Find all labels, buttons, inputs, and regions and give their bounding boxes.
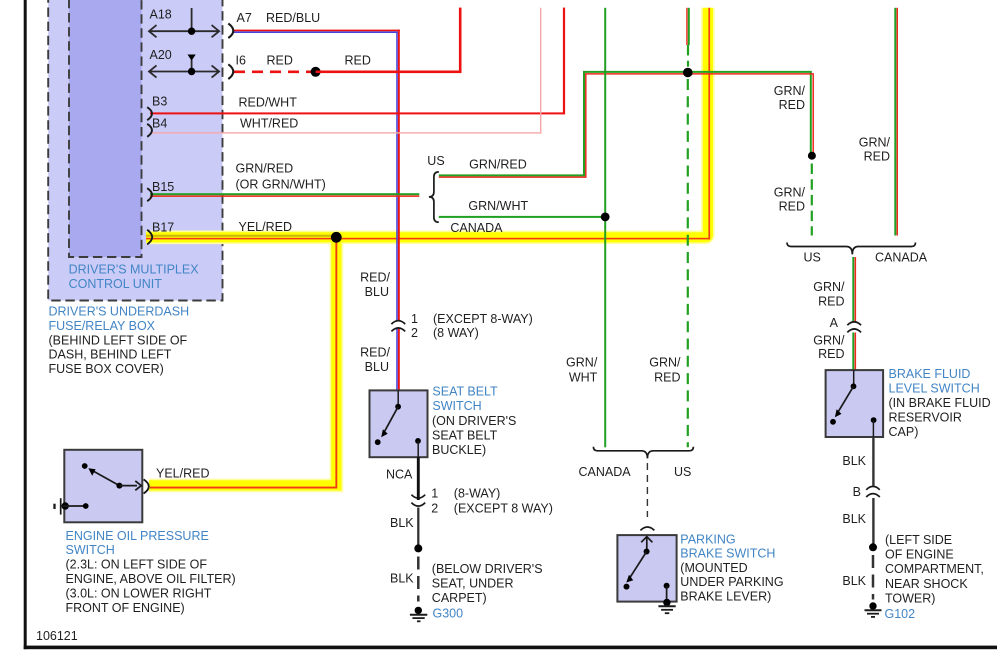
svg-text:BLK: BLK xyxy=(842,512,866,526)
svg-text:RED: RED xyxy=(345,53,371,67)
svg-text:RED: RED xyxy=(779,199,805,213)
svg-text:B: B xyxy=(853,485,861,499)
svg-text:GRN/: GRN/ xyxy=(813,334,845,348)
svg-text:CANADA: CANADA xyxy=(579,465,632,479)
svg-text:RED: RED xyxy=(654,370,680,384)
svg-text:BLK: BLK xyxy=(842,574,866,588)
svg-text:DRIVER'S MULTIPLEX: DRIVER'S MULTIPLEX xyxy=(69,263,200,277)
svg-text:OF ENGINE: OF ENGINE xyxy=(885,548,954,562)
svg-text:BRAKE LEVER): BRAKE LEVER) xyxy=(680,589,771,603)
svg-text:YEL/RED: YEL/RED xyxy=(156,467,210,481)
svg-text:GRN/WHT: GRN/WHT xyxy=(468,199,528,213)
svg-text:TOWER): TOWER) xyxy=(885,591,935,605)
svg-text:NCA: NCA xyxy=(386,468,413,482)
svg-text:A7: A7 xyxy=(237,11,252,25)
svg-text:BRAKE FLUID: BRAKE FLUID xyxy=(889,367,971,381)
svg-text:GRN/: GRN/ xyxy=(813,280,845,294)
svg-text:A20: A20 xyxy=(150,48,172,62)
svg-text:BLK: BLK xyxy=(390,516,414,530)
svg-text:BUCKLE): BUCKLE) xyxy=(432,443,486,457)
svg-text:(BELOW DRIVER'S: (BELOW DRIVER'S xyxy=(432,562,543,576)
svg-text:I6: I6 xyxy=(236,53,246,67)
svg-text:(8-WAY): (8-WAY) xyxy=(454,487,501,501)
svg-text:SWITCH: SWITCH xyxy=(66,543,115,557)
svg-text:(3.0L: ON LOWER RIGHT: (3.0L: ON LOWER RIGHT xyxy=(66,586,212,600)
svg-text:CANADA: CANADA xyxy=(450,221,503,235)
svg-text:CONTROL UNIT: CONTROL UNIT xyxy=(69,277,163,291)
svg-text:FUSE/RELAY BOX: FUSE/RELAY BOX xyxy=(49,319,156,333)
svg-text:NEAR SHOCK: NEAR SHOCK xyxy=(885,577,968,591)
svg-text:YEL/RED: YEL/RED xyxy=(239,220,293,234)
svg-text:RED/WHT: RED/WHT xyxy=(239,95,298,109)
svg-text:(OR GRN/WHT): (OR GRN/WHT) xyxy=(236,178,326,192)
svg-text:(ON DRIVER'S: (ON DRIVER'S xyxy=(432,414,516,428)
svg-text:B3: B3 xyxy=(152,94,167,108)
svg-text:B17: B17 xyxy=(152,221,174,235)
svg-text:(MOUNTED: (MOUNTED xyxy=(680,561,747,575)
svg-text:(BEHIND LEFT SIDE OF: (BEHIND LEFT SIDE OF xyxy=(49,333,188,347)
svg-text:FUSE BOX COVER): FUSE BOX COVER) xyxy=(49,362,164,376)
svg-text:CANADA: CANADA xyxy=(875,251,928,265)
svg-text:B4: B4 xyxy=(152,116,167,130)
svg-text:A: A xyxy=(830,316,839,330)
svg-text:RESERVOIR: RESERVOIR xyxy=(889,411,962,425)
svg-text:SEAT, UNDER: SEAT, UNDER xyxy=(432,576,514,590)
svg-text:SWITCH: SWITCH xyxy=(432,399,481,413)
svg-text:GRN/: GRN/ xyxy=(566,355,598,369)
svg-text:PARKING: PARKING xyxy=(680,533,735,547)
svg-text:US: US xyxy=(674,465,691,479)
svg-text:(2.3L: ON LEFT SIDE OF: (2.3L: ON LEFT SIDE OF xyxy=(66,558,208,572)
svg-text:RED: RED xyxy=(864,149,890,163)
svg-text:SEAT BELT: SEAT BELT xyxy=(432,428,498,442)
svg-text:BLU: BLU xyxy=(365,360,389,374)
svg-text:COMPARTMENT,: COMPARTMENT, xyxy=(885,562,984,576)
svg-text:RED/: RED/ xyxy=(360,346,390,360)
svg-text:(LEFT SIDE: (LEFT SIDE xyxy=(885,533,952,547)
svg-text:BRAKE SWITCH: BRAKE SWITCH xyxy=(680,547,775,561)
svg-text:106121: 106121 xyxy=(36,629,78,643)
svg-text:G102: G102 xyxy=(885,607,916,621)
svg-text:CARPET): CARPET) xyxy=(432,591,487,605)
svg-text:GRN/: GRN/ xyxy=(774,84,806,98)
svg-text:RED/: RED/ xyxy=(360,270,390,284)
svg-text:GRN/RED: GRN/RED xyxy=(469,158,527,172)
svg-text:US: US xyxy=(427,154,444,168)
svg-text:RED/BLU: RED/BLU xyxy=(266,11,320,25)
svg-text:WHT: WHT xyxy=(569,370,598,384)
svg-text:GRN/: GRN/ xyxy=(649,355,681,369)
svg-text:FRONT OF ENGINE): FRONT OF ENGINE) xyxy=(66,601,185,615)
svg-text:A18: A18 xyxy=(150,8,172,22)
svg-text:2: 2 xyxy=(411,326,418,340)
svg-text:(8 WAY): (8 WAY) xyxy=(433,326,479,340)
svg-text:DRIVER'S UNDERDASH: DRIVER'S UNDERDASH xyxy=(49,305,190,319)
svg-text:DASH, BEHIND LEFT: DASH, BEHIND LEFT xyxy=(49,348,172,362)
svg-text:RED: RED xyxy=(818,347,844,361)
svg-text:B15: B15 xyxy=(152,180,174,194)
svg-text:(EXCEPT 8-WAY): (EXCEPT 8-WAY) xyxy=(433,312,533,326)
svg-text:G300: G300 xyxy=(433,607,464,621)
svg-text:RED: RED xyxy=(267,53,293,67)
svg-text:1: 1 xyxy=(411,312,418,326)
svg-text:WHT/RED: WHT/RED xyxy=(240,117,298,131)
svg-text:GRN/: GRN/ xyxy=(774,186,806,200)
svg-text:GRN/RED: GRN/RED xyxy=(236,162,294,176)
svg-text:RED: RED xyxy=(779,98,805,112)
svg-text:GRN/: GRN/ xyxy=(859,136,891,150)
svg-text:(EXCEPT 8 WAY): (EXCEPT 8 WAY) xyxy=(454,501,553,515)
svg-text:CAP): CAP) xyxy=(889,425,919,439)
svg-text:1: 1 xyxy=(431,487,438,501)
svg-text:LEVEL SWITCH: LEVEL SWITCH xyxy=(889,382,980,396)
svg-text:RED: RED xyxy=(818,295,844,309)
svg-text:BLK: BLK xyxy=(842,454,866,468)
svg-text:(IN BRAKE FLUID: (IN BRAKE FLUID xyxy=(889,396,991,410)
svg-text:BLU: BLU xyxy=(365,285,389,299)
svg-text:SEAT BELT: SEAT BELT xyxy=(432,385,498,399)
svg-text:BLK: BLK xyxy=(390,572,414,586)
svg-text:2: 2 xyxy=(431,501,438,515)
svg-text:ENGINE OIL PRESSURE: ENGINE OIL PRESSURE xyxy=(66,529,209,543)
svg-text:ENGINE, ABOVE OIL FILTER): ENGINE, ABOVE OIL FILTER) xyxy=(66,572,236,586)
svg-text:UNDER PARKING: UNDER PARKING xyxy=(680,575,783,589)
svg-text:US: US xyxy=(804,251,821,265)
